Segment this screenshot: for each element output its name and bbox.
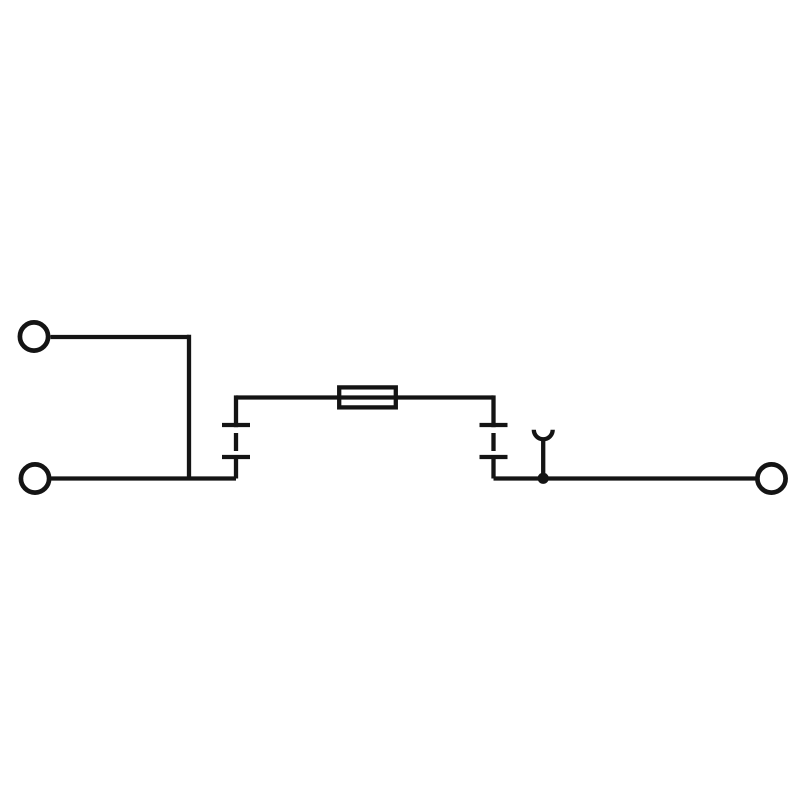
disconnect contact bar (left upper)	[222, 423, 250, 427]
wire stub below left disconnect	[234, 455, 238, 479]
test tap fork	[534, 430, 553, 439]
disconnect contact bar (right upper)	[480, 423, 508, 427]
fuse F1	[339, 387, 396, 407]
disconnect gap dash (left)	[234, 433, 238, 451]
wire stub above right disconnect	[491, 395, 495, 427]
wire bottom left from terminal X2	[51, 476, 236, 480]
terminal X1 (top left)	[20, 322, 48, 350]
terminal X3 (right)	[757, 464, 785, 492]
wire vertical jumper	[187, 335, 191, 479]
disconnect contact bar (left lower)	[222, 455, 250, 459]
wire middle horizontal through fuse	[236, 395, 494, 399]
terminal X2 (bottom left)	[21, 464, 49, 492]
junction node dot	[538, 473, 549, 484]
disconnect gap dash (right)	[491, 433, 495, 451]
wire stub above left disconnect	[234, 395, 238, 427]
test tap stem	[541, 441, 545, 475]
wire top horizontal from terminal X1	[51, 335, 190, 339]
wire stub below right disconnect	[491, 455, 495, 479]
disconnect contact bar (right lower)	[480, 455, 508, 459]
wire bottom right to terminal X3	[494, 476, 758, 480]
